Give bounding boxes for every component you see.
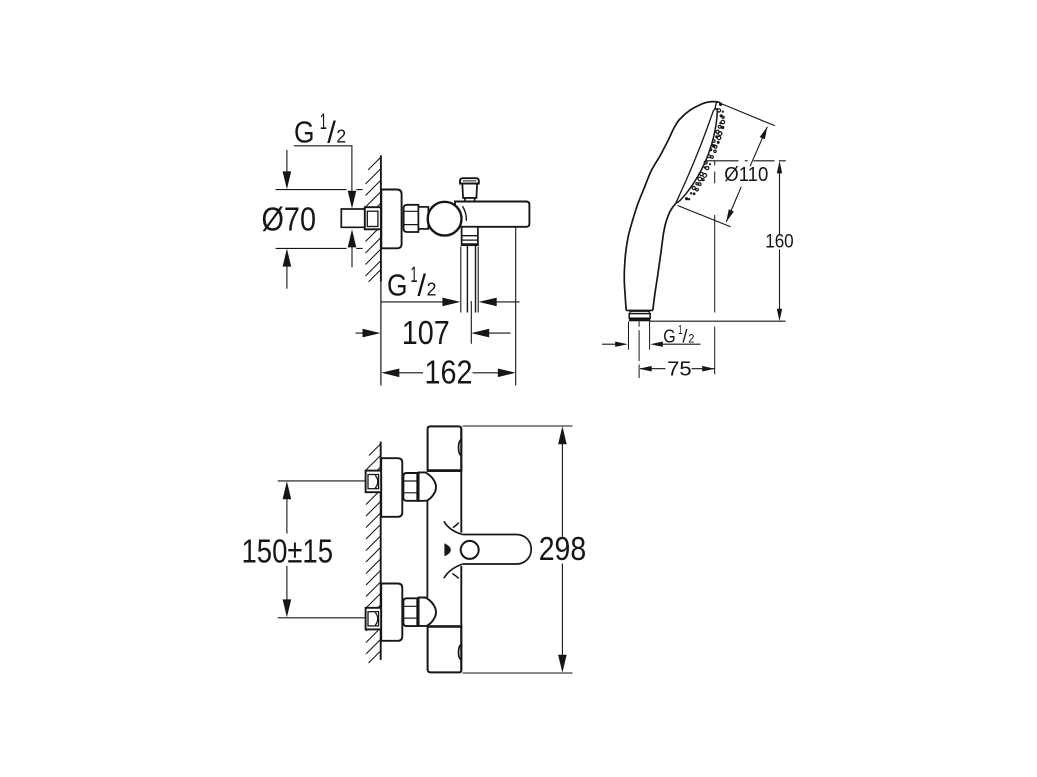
- upper fillet tick: [453, 523, 459, 528]
- body right edge upper: [460, 428, 462, 533]
- 150 dimension upper arrow: [283, 481, 292, 499]
- 150 upper reference line: [278, 480, 366, 482]
- outlet fitting ring lines: [462, 236, 478, 240]
- dia 110 dimension line upper segment + arrow: [750, 127, 767, 167]
- valve body circle: [428, 202, 462, 236]
- wall flange / escutcheon: [381, 190, 401, 249]
- upper square union nut: [366, 471, 382, 493]
- hose connector ring 1: [630, 311, 649, 313]
- G 1/2 outlet dimension line left segment: [381, 301, 445, 303]
- shower head back outline: [624, 102, 722, 311]
- hose connector black band: [629, 318, 650, 321]
- svg-text:/: /: [327, 115, 336, 150]
- lower wall flange: [381, 584, 402, 641]
- svg-text:162: 162: [425, 354, 473, 391]
- hose centre extension line: [470, 301, 472, 344]
- 298 dimension bottom arrow: [561, 564, 563, 657]
- flange bottom extension line: [276, 247, 363, 249]
- outlet fitting thick base: [462, 243, 478, 245]
- 150 dimension lower arrow: [286, 566, 288, 602]
- dia 70 lower arrow: [283, 249, 292, 267]
- G 1/2 outlet left-pointing arrow: [479, 298, 497, 307]
- body left edge mid: [426, 501, 428, 598]
- lower union nut inner square: [368, 612, 379, 626]
- upper union nut inner square: [368, 475, 379, 489]
- wall hatching (top view): [366, 158, 381, 282]
- outlet right extension line: [477, 247, 479, 313]
- body top cap (temperature handle): [428, 426, 462, 471]
- spout body: [455, 202, 529, 227]
- inner square of union nut: [367, 211, 378, 226]
- G 1/2 arrow down to pipe top: [348, 191, 357, 209]
- bottom reference line: [650, 320, 786, 322]
- wall hatching (bottom view): [366, 444, 380, 663]
- svg-text:75: 75: [667, 358, 692, 380]
- handle stem: [465, 198, 475, 202]
- outlet centre dashed line: [638, 322, 640, 379]
- svg-text:G: G: [663, 325, 675, 346]
- head centre vertical extension line: [714, 161, 716, 374]
- 298 top extension line: [463, 425, 573, 427]
- lower fillet tick: [452, 574, 458, 579]
- 150 lower reference line: [278, 617, 366, 619]
- wall line (top view): [380, 155, 382, 281]
- spout arm: [462, 535, 531, 565]
- wall line (bottom view): [380, 442, 382, 660]
- 162 right extension line: [515, 228, 517, 386]
- svg-text:298: 298: [539, 530, 587, 567]
- supply pipe through wall: [341, 209, 365, 227]
- handle cap inner line: [463, 180, 476, 182]
- G 1/2 outer left arrow: [602, 343, 617, 345]
- G 1/2 outlet dimension line right segment: [495, 301, 520, 303]
- svg-text:150±15: 150±15: [242, 532, 334, 569]
- lower hex nut facet lines: [404, 606, 418, 618]
- svg-text:Ø70: Ø70: [262, 200, 317, 237]
- upper hex nut: [403, 473, 417, 501]
- 75 dimension line: [639, 366, 652, 372]
- square union nut on pipe: [365, 207, 381, 229]
- shower hose outlet fitting: [462, 227, 478, 245]
- upper union nut arc: [375, 475, 378, 488]
- top joint thick line: [428, 469, 462, 472]
- upper inlet dome: [419, 472, 436, 501]
- svg-text:Ø110: Ø110: [724, 163, 768, 186]
- flange top extension line: [276, 189, 363, 191]
- handle cap (top knob): [460, 178, 479, 183]
- shower hose: [467, 246, 475, 313]
- svg-text:G: G: [294, 115, 315, 150]
- hex connection nut: [404, 205, 419, 232]
- outlet left extension line: [460, 247, 462, 313]
- outlet right extension line: [649, 321, 651, 349]
- lower union nut arc: [375, 613, 378, 626]
- hose connector ring 2: [629, 314, 650, 319]
- spray nozzles: [685, 103, 725, 201]
- G 1/2 right arrow + leader under text: [650, 342, 663, 347]
- 107 dimension left arrow: [356, 332, 365, 334]
- black crescent mark: [444, 543, 450, 556]
- G 1/2 arrow up to pipe bottom: [348, 229, 357, 247]
- svg-text:G: G: [387, 268, 408, 303]
- spout arm upper fillet: [444, 521, 462, 534]
- svg-text:107: 107: [402, 314, 450, 351]
- body bottom cap: [428, 626, 462, 672]
- dia 110 upper extension line: [721, 104, 775, 126]
- notch at head tip: [715, 102, 717, 110]
- svg-text:2: 2: [427, 279, 437, 300]
- svg-text:2: 2: [336, 126, 346, 147]
- 160 dimension line: [777, 161, 782, 174]
- bottom joint thick line: [428, 625, 462, 627]
- dia 110 dimension line lower segment + arrow: [726, 187, 741, 222]
- 107 dimension right arrow: [471, 329, 489, 338]
- dia 110 lower extension line: [678, 206, 731, 227]
- dia 70 upper arrow: [286, 150, 288, 173]
- upper hex nut facet lines: [404, 481, 418, 493]
- 162 dimension left arrow: [381, 369, 399, 378]
- svg-text:160: 160: [765, 231, 794, 252]
- 298 dimension top arrow: [558, 426, 567, 444]
- handle neck: [462, 184, 477, 198]
- body right edge lower: [460, 566, 462, 670]
- outlet left extension line: [628, 321, 630, 349]
- G 1/2 outlet right-pointing arrow: [442, 298, 460, 307]
- spout arm lower fillet: [444, 564, 462, 578]
- 162 dimension right arrow: [473, 372, 500, 374]
- handle bottom edge: [626, 309, 653, 311]
- lower hex nut: [403, 598, 417, 626]
- 298 bottom extension line: [463, 672, 573, 674]
- intersection arc inside spout: [463, 206, 467, 221]
- svg-text:1: 1: [320, 109, 327, 134]
- svg-text:/: /: [417, 268, 426, 303]
- face plate edge line: [676, 108, 718, 204]
- lower inlet dome: [419, 598, 436, 627]
- svg-text:2: 2: [688, 333, 694, 345]
- leader under G 1/2: [294, 146, 352, 193]
- face inner rim line: [676, 108, 716, 204]
- stem below G 1/2 bottom arrow: [351, 246, 353, 267]
- upper safety button arc: [458, 439, 461, 455]
- wall extension line downward: [380, 282, 382, 386]
- nut collar cylinder: [418, 207, 428, 229]
- head centre dash-dot line: [706, 160, 786, 162]
- handle front outline: [653, 204, 676, 311]
- lower square union nut: [366, 608, 382, 630]
- lower safety button arc: [458, 644, 461, 660]
- spout arm circle: [461, 541, 479, 559]
- hex nut facet lines: [404, 211, 419, 224]
- upper wall flange: [381, 458, 402, 517]
